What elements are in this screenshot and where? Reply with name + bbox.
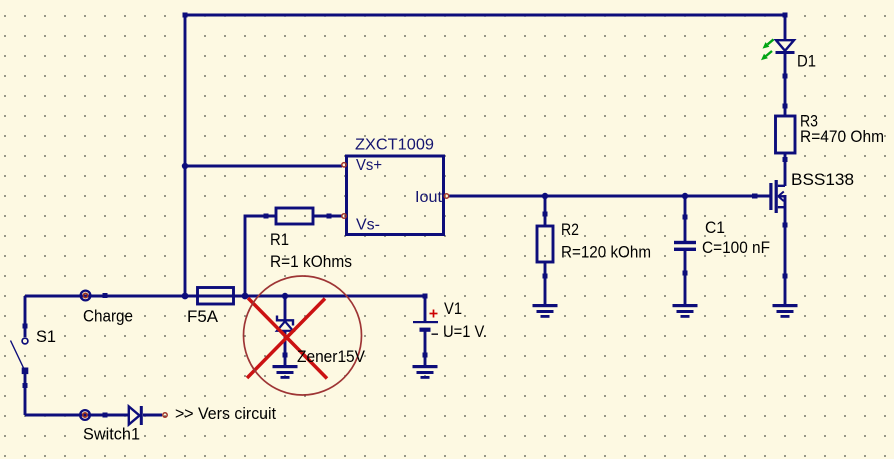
- op-amp U1 ZXCT1009 box: [347, 156, 444, 235]
- svg-text:Vs+: Vs+: [356, 157, 382, 174]
- wire R1 left: [245, 216, 276, 296]
- wire D1 cathode to R3: [784, 52, 787, 116]
- svg-text:ZXCT1009: ZXCT1009: [355, 136, 434, 153]
- svg-text:U=1 V.: U=1 V.: [443, 322, 487, 341]
- wire left rail: [184, 15, 187, 296]
- resistor R2: [537, 226, 553, 262]
- svg-text:V1: V1: [444, 299, 462, 318]
- strike cross line 2: [247, 299, 325, 379]
- wire S1 bottom: [24, 370, 27, 415]
- svg-text:C=100 nF: C=100 nF: [702, 238, 770, 257]
- svg-text:Charge: Charge: [83, 306, 133, 325]
- junction node C1 branch: [682, 193, 688, 199]
- svg-text:>> Vers circuit: >> Vers circuit: [175, 404, 276, 423]
- battery V1 minus mark: [432, 333, 439, 335]
- wire Iout net: [449, 195, 770, 198]
- svg-text:S1: S1: [36, 327, 56, 346]
- wire C1 bottom: [684, 249, 687, 305]
- pin circle Vs-: [342, 214, 346, 218]
- wire R2 bottom: [544, 262, 547, 305]
- capacitor C1: [674, 241, 696, 251]
- ground C1: [673, 304, 698, 318]
- wire zener bottom: [284, 331, 287, 365]
- wire R1 right: [313, 215, 342, 218]
- junction node R1 branch: [242, 293, 249, 300]
- svg-text:R1: R1: [270, 230, 289, 249]
- svg-text:F5A: F5A: [187, 307, 219, 326]
- pin circle Vers circuit: [163, 413, 167, 417]
- wire top rail: [185, 14, 785, 17]
- svg-text:D1: D1: [797, 51, 816, 70]
- resistor R1: [276, 208, 313, 224]
- ground Q1: [773, 304, 798, 318]
- wire D3 cathode out: [143, 414, 162, 417]
- ground zener: [273, 365, 298, 379]
- connector Switch1: [80, 410, 90, 420]
- resistor R3: [776, 116, 796, 153]
- pin end squares: [23, 13, 788, 418]
- zener diode Zener15V: [277, 316, 293, 331]
- svg-text:R=1 kOhms: R=1 kOhms: [270, 252, 352, 271]
- battery V1: [413, 321, 438, 332]
- battery V1 plus mark: [430, 310, 438, 318]
- wire R3 to Q1 drain: [784, 153, 787, 186]
- ground V1: [413, 365, 438, 379]
- junction node left rail bottom: [182, 293, 189, 300]
- LED D1: [776, 40, 795, 54]
- wire S1 top: [24, 296, 27, 337]
- svg-text:C1: C1: [705, 218, 725, 237]
- svg-text:R=470 Ohm: R=470 Ohm: [800, 127, 884, 146]
- wire main bottom net: [25, 295, 425, 298]
- svg-text:R=120 kOhm: R=120 kOhm: [561, 243, 651, 262]
- svg-text:Vs-: Vs-: [356, 217, 380, 234]
- svg-text:Zener15V: Zener15V: [297, 347, 366, 366]
- ground R2: [533, 304, 558, 318]
- wire Vs+: [185, 165, 342, 168]
- diode D3: [129, 406, 143, 425]
- svg-text:BSS138: BSS138: [791, 170, 854, 189]
- switch S1: [11, 338, 29, 374]
- svg-text:Iout: Iout: [415, 189, 443, 206]
- wire Q1 gate: [749, 195, 771, 198]
- wire D1 anode: [784, 15, 787, 40]
- connector Charge: [81, 291, 91, 301]
- transistor Q1 BSS138: [769, 180, 785, 213]
- wire V1 bottom: [424, 330, 427, 365]
- svg-text:Switch1: Switch1: [83, 424, 140, 443]
- wire Q1 source to ground: [784, 195, 787, 305]
- strike ellipse: [244, 276, 362, 395]
- pin circle Iout: [444, 194, 448, 198]
- LED D1 light arrows: [761, 39, 774, 60]
- wire zener top: [284, 296, 287, 320]
- wire R2 top: [544, 196, 547, 226]
- fuse F5A: [198, 288, 234, 305]
- junction node R2 branch: [542, 193, 548, 199]
- wire switch net: [25, 414, 128, 417]
- svg-text:R2: R2: [561, 220, 579, 239]
- junction node zener branch: [282, 293, 288, 299]
- junction node Vs+ rail: [182, 163, 188, 169]
- wire C1 top: [684, 196, 687, 242]
- wire V1 top: [424, 296, 427, 322]
- pin circle Vs+: [342, 163, 346, 167]
- strike cross line 1: [248, 298, 327, 379]
